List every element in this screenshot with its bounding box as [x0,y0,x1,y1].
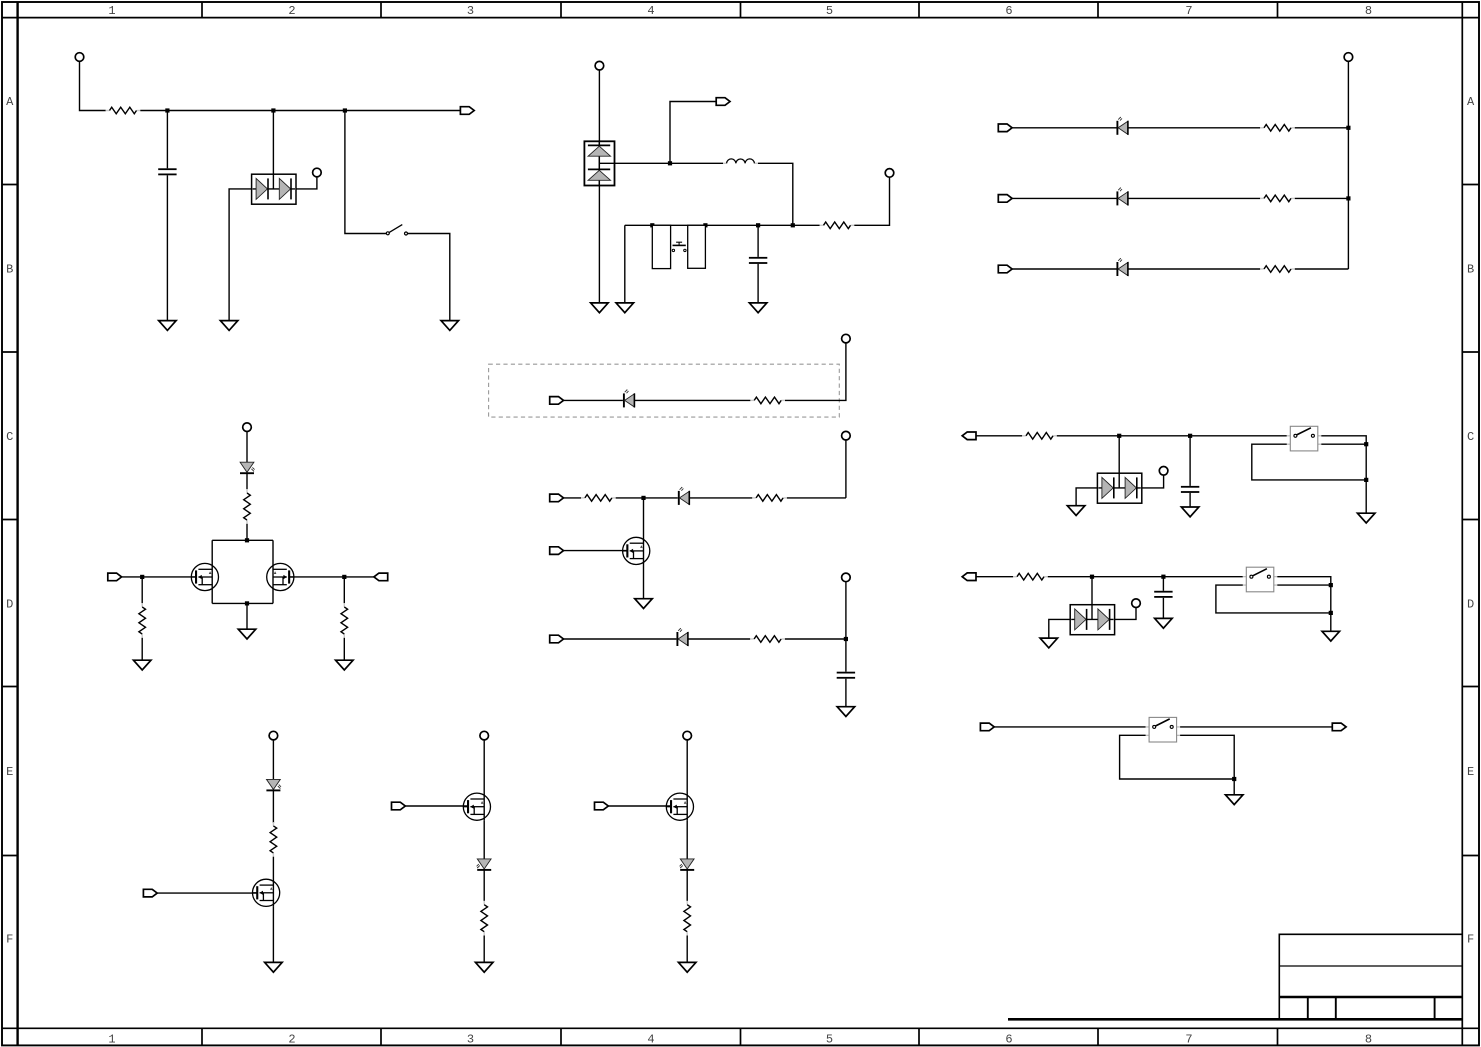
column numbers bottom [108,1032,1372,1046]
column numbers top [108,4,1372,18]
wire right bus [1347,61,1349,269]
wire DB2 to RB3 [689,497,752,499]
junction JC1 [245,538,249,542]
ground GND6 [749,303,767,313]
wire Q4 source to ground [272,906,274,962]
wire DA1 to RA1 [1128,127,1260,129]
port PE1 [962,573,976,581]
wire PB1 to LED DB1 [564,399,623,401]
title block bottom heavy line [1008,1018,1462,1021]
junction JD2 [1188,434,1192,438]
resistor RG3 [684,901,691,936]
pushbutton SW between coils [672,242,686,251]
junction JD1 [1117,434,1121,438]
svg-text:E: E [6,765,13,779]
ground GND9 [133,660,151,670]
wire S3 NC right [1277,584,1331,586]
ground GND21 [678,962,696,972]
resistor RB2 [581,495,616,502]
resistor RC1 [244,489,251,524]
wire T3 to TVS [598,70,600,141]
led DA3 [1117,258,1128,276]
svg-text:7: 7 [1185,1032,1192,1046]
wire bridge right vertical [272,540,274,603]
terminal T13 [480,731,489,740]
junction J3 [343,108,347,112]
wire S4 to port PF2 [1180,726,1332,728]
terminal T11 [1132,599,1141,608]
dual diode D3 [1097,473,1141,503]
junction JE2 [1161,575,1165,579]
junction JE4 [1329,611,1333,615]
port P2 [716,98,730,106]
wire PB4 to LED DB3 [564,638,677,640]
dashed highlight box [489,364,840,417]
row dividers right band [1462,185,1479,856]
dual diode D1 [252,174,296,204]
junction JA2 [1346,196,1350,200]
wire TVS tap to J4 [599,162,670,164]
mosfet Q3 [267,563,294,590]
wire RE1 to switch box [1048,576,1243,578]
capacitor C5 [1154,591,1172,598]
svg-text:8: 8 [1365,1032,1372,1046]
ground GND1 [159,321,177,331]
ground GND4 [591,303,609,313]
wire S1 to ground [408,234,450,321]
mosfet Q6 [666,793,693,820]
junction JB2 [844,637,848,641]
wire PD1 to RD1 [976,435,1022,437]
junction JD4 [1364,478,1368,482]
relay coil box right [688,225,706,268]
svg-text:5: 5 [826,1032,833,1046]
resistor R2 [820,222,855,229]
resistor RE1 [1013,573,1048,580]
svg-text:4: 4 [647,1032,654,1046]
port PA2 [998,195,1012,203]
svg-text:B: B [1467,262,1474,276]
svg-text:E: E [1467,765,1474,779]
led DG2 [477,859,492,870]
wire DG2 to RG2 [483,870,485,901]
wire PG1 to Q4 gate [157,892,257,894]
svg-text:A: A [1467,95,1475,109]
wire JC4 to RC3 [343,577,345,603]
junction JB1 [641,496,645,500]
wire D3 left to ground [1076,488,1097,506]
junction J1 [165,108,169,112]
junction J4 [668,161,672,165]
led DG1 [266,779,281,790]
wire R1 to output port P1 [140,110,460,112]
wire RB3 to T7 rail [787,497,846,499]
port PC1 [108,573,122,581]
wire J1 to C1 [166,111,168,169]
svg-text:C: C [6,430,13,444]
wire S4 NC right [1180,735,1234,779]
column dividers bottom band [202,1028,1278,1045]
wire PB2 to RB2 [564,497,582,499]
mosfet Q2 [191,563,218,590]
title block outline [1279,934,1462,1018]
capacitor C4 [1181,486,1199,493]
ground GND10 [336,660,354,670]
wire PF1 to switch S4 [994,726,1145,728]
ground GND17 [1322,631,1340,641]
port PB3 gate [550,547,564,555]
wire D1 right to terminal T2 [296,177,317,189]
svg-text:3: 3 [467,4,474,18]
wire JB2 to C3 [845,639,847,672]
wire bridge top rail [212,539,273,541]
svg-text:2: 2 [288,4,295,18]
wire J2 to diode box D1 [272,111,274,175]
wire RB2 to LED DB2 [616,497,678,499]
wire RC2 to ground [141,638,143,660]
switch S1 [386,225,407,235]
wire DC1 to RC1 [246,473,248,489]
wire T1 to R1 [80,61,106,110]
wire JD1 to diode box D3 [1118,436,1120,473]
terminal T7 [842,431,851,440]
resistor RA1 [1260,125,1295,132]
ground GND16 [1155,618,1173,628]
wire J3 to switch S1 [345,111,386,234]
port PA1 [998,124,1012,132]
resistor RC3 [341,603,348,638]
wire RC1 to bridge top [246,524,248,541]
junction JF1 [1232,777,1236,781]
resistor RC2 [139,603,146,638]
wire C4 to ground [1189,493,1191,507]
junction J4c [756,223,760,227]
wire R2 to terminal T4 [854,177,889,225]
resistor RG2 [481,901,488,936]
terminal T10 [1159,467,1168,476]
switch S2 [1287,426,1322,451]
svg-text:3: 3 [467,1032,474,1046]
wire PG2 to Q5 gate [405,805,468,807]
svg-text:D: D [1467,597,1474,611]
mosfet Q4 [253,879,280,906]
resistor RB1 [750,397,785,404]
relay coil box left [652,225,670,268]
row dividers left band [2,185,18,856]
svg-text:2: 2 [288,1032,295,1046]
wire lower rail [625,224,793,226]
svg-text:1: 1 [108,4,115,18]
led DB1 [624,390,635,408]
led DA1 [1117,117,1128,135]
wire RA2 to bus [1295,197,1349,199]
wire J4 to inductor L1 [670,162,723,164]
junction J4d [791,223,795,227]
ground GND14 [1357,513,1375,523]
wire PB3 to Q1 gate [564,550,628,552]
led DB2 [679,487,690,505]
ground GND11 [238,629,256,639]
svg-text:C: C [1467,430,1474,444]
resistor RD1 [1022,433,1057,440]
wire RG2 to ground [483,936,485,963]
title block cell dividers [1308,997,1435,1018]
tvs diode pair D2 [584,141,614,185]
ground GND18 [1225,795,1243,805]
svg-text:5: 5 [826,4,833,18]
wire bridge bottom rail [212,602,273,604]
ground GND2 [220,321,238,331]
port PG2 [392,802,406,810]
wire PG3 to Q6 gate [608,805,671,807]
wire PE1 to RE1 [976,576,1013,578]
junction JC2 [245,601,249,605]
wire D4 right to terminal T11 [1115,608,1136,620]
svg-text:B: B [6,262,13,276]
led DB3 [677,628,688,646]
ground GND12 [1067,506,1085,516]
row letters left [6,95,14,947]
wire D3 right to terminal T10 [1142,475,1164,488]
wire PA3 to LED DA3 [1012,268,1116,270]
wire Q6 to LED DG3 [686,820,688,859]
wire DB3 to RB4 [688,638,750,640]
wire T12 to LED DG1 [272,740,274,780]
wire JE1 to diode box D4 [1091,577,1093,605]
wire DB1 to RB1 [634,399,750,401]
wire DG1 to RG1 [272,790,274,823]
title block row line 2 [1279,996,1462,999]
port PB1 [550,397,564,405]
port PG1 [143,889,157,897]
terminal T2 [313,168,322,177]
resistor RB4 [750,636,785,643]
svg-text:F: F [6,932,13,946]
wire C1 to ground [166,175,168,320]
switch S3 [1243,567,1278,592]
junction J4a [650,223,654,227]
terminal T12 [269,731,278,740]
wire RD1 to switch box [1057,435,1287,437]
frame band line bottom [2,1027,1479,1029]
ground GND15 [1040,638,1058,648]
ground GND7 [635,599,653,609]
terminal T4 [885,169,894,178]
wire JE2 to C5 [1162,577,1164,591]
wire C5 to ground [1162,598,1164,619]
wire S2 out to ground rail [1321,436,1366,513]
wire C3 to ground [845,679,847,707]
svg-text:4: 4 [647,4,654,18]
wire D1 left to ground [229,189,252,321]
wire S3 NC loop left [1216,585,1331,613]
svg-text:8: 8 [1365,4,1372,18]
led DG3 [680,859,695,870]
junction J4b [703,223,707,227]
wire S2 NC right [1321,443,1366,445]
wire S2 NC loop left [1252,444,1366,480]
inductor L1 [723,159,758,163]
wire T7 down [845,440,847,498]
ground GND19 [265,962,283,972]
resistor R1 [106,107,141,114]
svg-text:7: 7 [1185,4,1192,18]
column dividers top band [202,2,1278,18]
wire JB1 through Q1 drain-source [643,498,645,565]
wire S3 out to ground rail [1277,577,1331,632]
port PF2 [1332,723,1346,731]
junction JD3 [1364,442,1368,446]
wire T8 down [845,582,847,639]
wire PC1 to Q2 gate [122,576,197,578]
junction JE3 [1329,583,1333,587]
port PA3 [998,265,1012,273]
svg-text:6: 6 [1005,4,1012,18]
wire bridge left vertical [211,540,213,603]
ground GND3 [441,321,459,331]
wire JF1 to ground [1233,779,1235,795]
dual diode D4 [1070,605,1114,635]
terminal T14 [683,731,692,740]
wire DA3 to RA3 [1128,268,1260,270]
ground GND5 [616,303,634,313]
wire RG1 through Q4 drain-source [272,857,274,907]
wire DG3 to RG3 [686,870,688,901]
svg-text:6: 6 [1005,1032,1012,1046]
ground GND13 [1181,507,1199,517]
wire Q5 to LED DG2 [483,820,485,859]
ground GND20 [475,962,493,972]
ground GND8 [837,707,855,717]
wire J4c to C2 [757,225,759,257]
mosfet Q5 [463,793,490,820]
capacitor C1 [158,168,176,175]
svg-text:A: A [6,95,14,109]
frame band line right [1461,2,1463,1045]
port PC2 [374,573,388,581]
terminal T5 [1344,53,1353,62]
wire RC3 to ground [343,638,345,660]
junction JE1 [1090,575,1094,579]
wire TVS to ground [598,186,600,303]
port PB2 [550,494,564,502]
wire Q3 gate to port PC2 [289,576,374,578]
port PF1 [980,723,994,731]
junction JC3 [140,575,144,579]
wire rail to R2 [793,224,820,226]
wire JD2 to C4 [1189,436,1191,486]
mosfet Q1 [623,537,650,564]
junction J2 [271,108,275,112]
svg-text:D: D [6,597,13,611]
terminal T1 [75,53,84,62]
led DA2 [1117,188,1128,206]
terminal T6 [842,334,851,343]
frame band line left [16,2,18,1045]
wire RB4 to junction [785,638,846,640]
wire RA1 to bus [1295,127,1349,129]
wire PA2 to LED DA2 [1012,197,1116,199]
svg-text:F: F [1467,932,1474,946]
junction JA1 [1346,126,1350,130]
resistor RA3 [1260,266,1295,273]
wire RG3 to ground [686,936,688,963]
wire D4 left to ground [1049,619,1070,638]
wire rail left to ground [624,225,626,303]
capacitor C3 [837,672,855,679]
port PG3 [595,802,609,810]
wire L1 to lower rail [758,163,793,225]
terminal T9 [243,423,252,432]
port P1 [460,107,474,115]
wire bridge bottom to ground [246,603,248,629]
resistor RG1 [270,822,277,857]
frame band line top [2,17,1479,19]
resistor RB3 [752,495,787,502]
wire T13 through Q5 drain-source [483,740,485,820]
junction JC4 [342,575,346,579]
wire C2 to ground [757,264,759,303]
title block row line 1 [1279,965,1462,967]
wire DA2 to RA2 [1128,197,1260,199]
wire J4 up to port P2 [670,102,716,164]
wire Q1 source to ground [643,565,645,599]
capacitor C2 [749,257,767,264]
terminal T8 [842,573,851,582]
row letters right [1467,95,1475,947]
wire S4 NC loop left [1120,735,1235,779]
wire JC3 to RC2 [141,577,143,603]
wire T14 through Q6 drain-source [686,740,688,820]
wire T9 to LED DC1 [246,432,248,463]
svg-text:1: 1 [108,1032,115,1046]
wire RA3 to bus [1295,268,1349,270]
port PB4 [550,635,564,643]
resistor RA2 [1260,195,1295,202]
terminal T3 [595,61,604,70]
wire PA1 to LED DA1 [1012,127,1116,129]
led DC1 [240,462,255,473]
port PD1 [962,432,976,440]
wire RB1 to terminal T6 [785,343,846,401]
switch S4 [1146,717,1181,742]
